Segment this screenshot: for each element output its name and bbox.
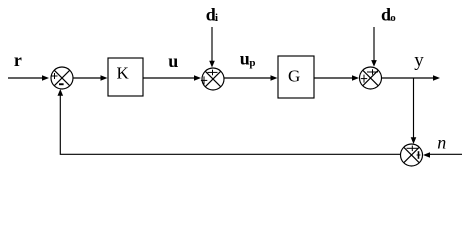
svg-text:r: r: [14, 50, 22, 70]
svg-text:p: p: [249, 57, 255, 69]
wire d_i input: [211, 27, 213, 62]
wire feedback S4 to S1: [60, 96, 400, 155]
wire r input: [8, 77, 43, 79]
wire S3 to output y: [382, 77, 434, 79]
wire n input: [430, 153, 463, 155]
summing junction S3: [360, 67, 382, 89]
wire y branch down to S4: [413, 78, 415, 138]
wire S1 to K: [73, 77, 102, 79]
svg-text:u: u: [240, 49, 250, 69]
wire S2 to G: [224, 77, 271, 79]
block K: [108, 58, 143, 96]
summing junction S4: [401, 144, 423, 166]
summing junction S1: [51, 67, 73, 89]
wire G to S3: [314, 77, 353, 79]
svg-text:y: y: [414, 50, 424, 71]
svg-text:G: G: [288, 67, 300, 86]
wire K to S2: [143, 77, 195, 79]
summing junction S2: [201, 68, 224, 90]
block G: [278, 56, 314, 98]
minus sign on S1 feedback input: [59, 83, 64, 85]
svg-text:u: u: [168, 51, 178, 71]
svg-text:o: o: [390, 12, 396, 24]
svg-text:i: i: [215, 12, 218, 24]
wire d_o input: [373, 27, 375, 61]
svg-text:n: n: [437, 132, 446, 152]
svg-text:K: K: [117, 64, 130, 83]
